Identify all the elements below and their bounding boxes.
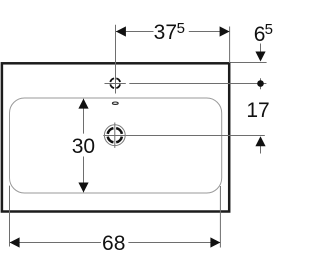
dimension 37.5 line segments bbox=[116, 31, 154, 33]
dimension 68 left arrow bbox=[10, 237, 20, 247]
dimension 37.5 right extension line bbox=[229, 27, 231, 64]
svg-text:37: 37 bbox=[154, 21, 177, 44]
overflow slot bbox=[112, 102, 118, 104]
dimension 30 up arrow bbox=[78, 99, 88, 109]
drain outer circle bbox=[104, 125, 125, 146]
dimension 37.5 left arrow bbox=[116, 26, 126, 36]
dimension 68 line segments bbox=[10, 242, 101, 244]
dimension 17 arrow shaft bbox=[260, 146, 262, 154]
svg-text:30: 30 bbox=[72, 135, 95, 158]
drain horizontal centerline to right dimension bbox=[103, 135, 264, 137]
dimension 6.5 down arrow bbox=[255, 52, 265, 62]
svg-text:17: 17 bbox=[246, 99, 269, 122]
dimension 30 down arrow bbox=[78, 183, 88, 193]
chain dimension dot vertical tick bbox=[260, 78, 262, 89]
basin outer rectangle bbox=[2, 63, 229, 211]
faucet hole centerline vertical bbox=[115, 25, 117, 94]
dimension 30 line segments bbox=[83, 99, 85, 134]
chain dimension dot bbox=[257, 80, 264, 87]
inner bowl outline bbox=[10, 98, 222, 193]
drain inner ring bbox=[108, 128, 122, 142]
dimension 68 right extension line bbox=[219, 186, 221, 248]
dimension 68 left extension line bbox=[9, 186, 11, 247]
svg-text:5: 5 bbox=[177, 20, 185, 37]
dimension 6.5 arrow shaft bbox=[260, 44, 262, 53]
svg-text:5: 5 bbox=[265, 21, 273, 38]
dimension 68 right arrow bbox=[210, 237, 220, 247]
faucet hole horizontal centerline to right dimension bbox=[105, 83, 126, 85]
dimension 17 up arrow bbox=[255, 136, 265, 146]
dimension 37.5 right arrow bbox=[220, 26, 230, 36]
drain vertical centerline bbox=[114, 123, 116, 148]
faucet hole ring bbox=[110, 78, 120, 88]
svg-text:68: 68 bbox=[102, 232, 125, 255]
top edge right extension line bbox=[231, 62, 267, 64]
